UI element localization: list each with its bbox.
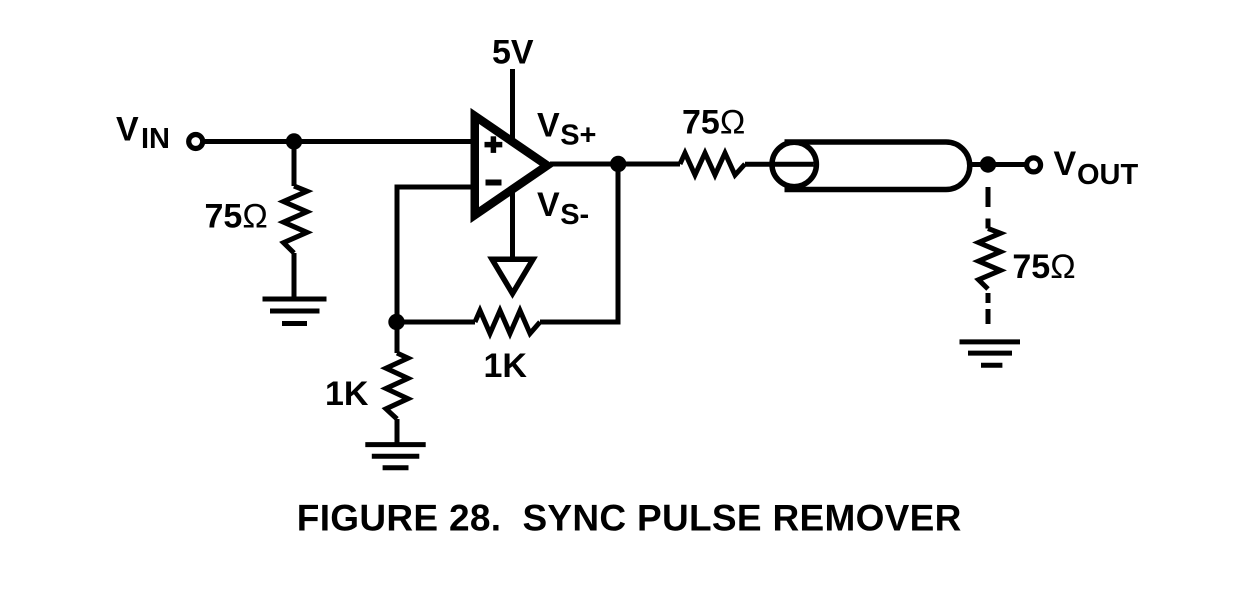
wire junction to R2 [395, 322, 400, 353]
svg-text:FIGURE 28. SYNC PULSE REMOVER: FIGURE 28. SYNC PULSE REMOVER [297, 498, 962, 539]
wire junction to R1 [292, 142, 297, 187]
resistor R1 75ohm vertical [284, 186, 308, 253]
resistor R4 75ohm horizontal [680, 153, 745, 175]
svg-text:75Ω: 75Ω [682, 104, 745, 142]
wire junction to R3 [397, 320, 475, 325]
terminal VOUT [1027, 158, 1041, 172]
ground G3 [960, 342, 1021, 365]
node feedback junction [388, 314, 404, 330]
wire op-amp output [550, 162, 680, 167]
node input junction [286, 133, 302, 149]
wire dashed VOUT node to R5 [986, 187, 991, 229]
wire coax to output terminal [969, 162, 1027, 167]
op-amp U1 [475, 116, 547, 215]
op-amp plus input symbol [485, 136, 503, 153]
coax cable body [785, 142, 970, 190]
wire dashed R5 to ground [986, 293, 991, 324]
svg-text:1K: 1K [325, 375, 369, 413]
ground G1 [263, 299, 327, 324]
resistor R3 1K feedback horizontal [475, 311, 540, 334]
node output junction [610, 156, 626, 172]
wire 5V supply [510, 69, 515, 258]
supply VS- down arrow [492, 259, 533, 293]
wire R2 to ground [395, 419, 400, 443]
wire R4 to coax center [745, 162, 814, 167]
node VOUT junction [980, 156, 996, 172]
wire R3 to output node [540, 164, 618, 322]
resistor R5 75ohm vertical [979, 229, 1001, 290]
wire inverting input feedback [397, 187, 473, 322]
op-amp minus input symbol [486, 180, 502, 186]
resistor R2 1K vertical [386, 353, 408, 419]
wire R1 to ground [292, 253, 297, 297]
svg-text:5V: 5V [492, 34, 534, 72]
ground G2 [365, 445, 425, 468]
svg-text:75Ω: 75Ω [205, 198, 268, 236]
terminal VIN [189, 135, 203, 149]
wire input [204, 139, 474, 144]
svg-text:1K: 1K [484, 347, 528, 385]
coax cable open end circle [772, 142, 816, 186]
svg-text:75Ω: 75Ω [1012, 248, 1075, 286]
